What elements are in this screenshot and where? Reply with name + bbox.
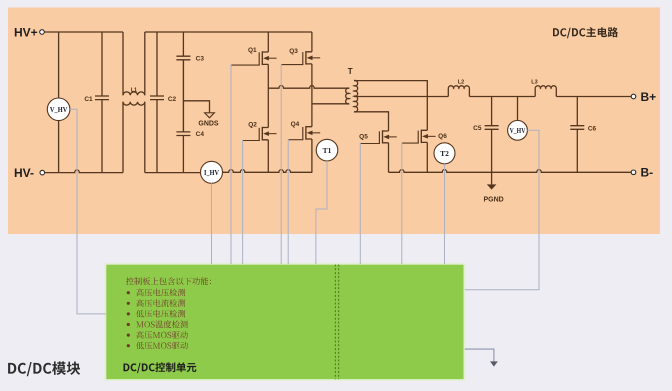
wire bridge node B to primary bottom: [312, 103, 349, 105]
transistor Q4: [303, 126, 320, 140]
ground GNDS symbol: [205, 113, 215, 118]
control wire Q3 gate drive: [280, 64, 282, 264]
capacitor C4 top lead: [182, 131, 184, 133]
svg-text:Q3: Q3: [289, 48, 298, 55]
wire Q2 gate lead: [243, 140, 260, 142]
inductor L1 bottom-left stub: [122, 102, 124, 173]
svg-text:PGND: PGND: [483, 196, 503, 203]
wire PGND drop: [491, 172, 493, 184]
capacitor C3 top lead: [182, 32, 184, 56]
control wire Q2 gate drive: [242, 140, 244, 264]
transistor Q5: [379, 130, 396, 143]
title DC/DC main circuit: [553, 27, 618, 38]
capacitor C4 plates: [176, 132, 190, 136]
svg-text:HV-: HV-: [14, 166, 34, 180]
svg-text:V_HV: V_HV: [50, 105, 68, 114]
control box ground wire: [465, 349, 494, 361]
capacitor C5 plates: [485, 126, 499, 130]
svg-text:Q6: Q6: [438, 133, 447, 140]
wire V_HV output sense stub: [517, 97, 519, 121]
list item 高压电压检测: [136, 289, 185, 297]
bullet 6: [127, 344, 130, 347]
svg-text:Q1: Q1: [248, 47, 257, 54]
wire Q5 source to B- rail: [388, 143, 390, 173]
transistor Q2: [259, 127, 276, 141]
wire V_HV branch lower: [58, 121, 60, 173]
svg-text:C6: C6: [588, 125, 597, 132]
capacitor C2 top lead: [156, 32, 158, 96]
svg-text:L1: L1: [131, 87, 137, 93]
control wire from V_HV input to control box: [70, 109, 106, 314]
label DC/DC control unit: [124, 362, 197, 373]
svg-text:GNDS: GNDS: [198, 121, 219, 128]
transistor Q3: [303, 51, 320, 65]
svg-text:B+: B+: [641, 90, 657, 104]
capacitor C1 plates: [95, 96, 109, 100]
control wire from V_HV output to control box: [465, 130, 539, 289]
bullet 3: [127, 312, 130, 315]
inductor L3: [535, 86, 556, 97]
svg-text:L3: L3: [531, 79, 537, 85]
svg-text:Q4: Q4: [291, 121, 300, 128]
capacitor C3 plates: [176, 56, 190, 60]
capacitor C6 bottom lead: [576, 129, 578, 172]
svg-text:L2: L2: [458, 79, 464, 85]
control wire Q1 gate drive: [230, 64, 232, 264]
svg-text:T2: T2: [440, 149, 449, 158]
capacitor C3-C4 mid segment: [182, 60, 184, 132]
wire right leg Q4 source to HV- rail: [311, 139, 313, 172]
control wire from T1 to control box: [316, 161, 327, 264]
bullet 1: [127, 291, 130, 294]
capacitor C5 bottom lead: [491, 129, 493, 172]
svg-text:C3: C3: [196, 55, 205, 62]
svg-text:Q2: Q2: [248, 121, 257, 128]
svg-text:C2: C2: [168, 96, 177, 103]
sensor T1: [316, 139, 338, 161]
wire Q6 source to B- rail: [426, 142, 428, 172]
svg-text:V_HV: V_HV: [510, 126, 526, 135]
label DC/DC module: [8, 361, 80, 376]
wire HV- rail to I_HV: [145, 172, 201, 174]
capacitor C2 plates: [150, 96, 164, 100]
control ground arrow: [490, 361, 498, 366]
terminal HV+: [40, 30, 45, 35]
control wire from I_HV to control box: [211, 183, 213, 264]
wire secondary centre tap to L2: [354, 96, 448, 98]
meter I_HV: [201, 161, 223, 183]
terminal HV-: [40, 170, 45, 175]
terminal B+: [631, 94, 636, 99]
wire secondary bottom pin to Q5 drain: [354, 112, 389, 131]
wire Q6 gate lead: [402, 142, 419, 144]
wire right leg Q3 source to Q4 drain: [311, 64, 313, 127]
capacitor C2 bottom lead: [156, 100, 158, 173]
transistor Q1: [259, 51, 276, 65]
transistor Q6: [418, 130, 435, 144]
list item 高压电流检测: [136, 299, 185, 307]
meter V_HV input: [47, 98, 70, 121]
list item 高压MOS驱动: [136, 331, 188, 339]
transformer T secondary winding: [354, 80, 358, 112]
dashed separator line left: [334, 265, 336, 380]
control wire Q5 gate drive: [359, 143, 361, 264]
svg-text:C4: C4: [196, 131, 205, 138]
wire left leg Q2 source to HV- rail: [267, 140, 269, 173]
control unit box (green): [105, 264, 464, 380]
wire secondary top pin to Q6 drain: [354, 81, 427, 131]
control wire Q4 gate drive: [287, 139, 289, 264]
svg-text:T1: T1: [323, 146, 332, 155]
svg-text:T: T: [348, 67, 353, 76]
svg-text:Q5: Q5: [359, 134, 368, 141]
capacitor C6 top lead: [576, 97, 578, 126]
control box heading: [126, 277, 211, 285]
inductor L1 top-right stub: [144, 32, 146, 95]
meter V_HV output: [508, 120, 528, 140]
wire Q1 gate lead: [231, 64, 260, 66]
bullet 5: [127, 334, 130, 337]
wire L3 to B+: [556, 96, 631, 98]
svg-text:C5: C5: [473, 125, 482, 132]
inductor L2: [448, 86, 469, 97]
list item 低压MOS驱动: [136, 342, 188, 350]
wire HV+ rail left segment: [44, 31, 123, 33]
dashed separator line right: [338, 265, 340, 380]
capacitor C1 top lead: [101, 32, 103, 96]
control wire Q6 gate drive: [401, 142, 403, 264]
wire right leg Q3 drain: [311, 32, 313, 52]
capacitor C5 top lead: [491, 97, 493, 126]
capacitor C6 plates: [570, 126, 584, 130]
wire left leg Q1 source to Q2 drain: [267, 64, 269, 127]
wire Q4 gate lead: [288, 139, 303, 141]
wire Q5 gate lead: [360, 143, 380, 145]
wire L2 to L3: [469, 96, 535, 98]
list item MOS温度检测: [136, 320, 188, 328]
wire HV- rail right of I_HV with hops over gate wires: [223, 170, 313, 173]
inductor L1 top-left stub: [122, 32, 124, 95]
inductor L1 top winding: [123, 92, 145, 95]
wire V_HV branch upper: [58, 32, 60, 98]
sensor T2: [434, 143, 455, 164]
svg-text:B-: B-: [641, 166, 654, 180]
inductor L1 bottom winding: [123, 102, 145, 105]
svg-text:I_HV: I_HV: [204, 168, 219, 177]
wire HV- rail left segment with hop over V_HV sense wire: [45, 170, 123, 173]
svg-text:HV+: HV+: [14, 25, 38, 39]
wire B- rail with hops over control wires: [389, 170, 632, 173]
ground PGND symbol: [487, 184, 497, 189]
wire Q3 gate lead: [281, 64, 303, 66]
control wire from T2 to control box: [444, 164, 446, 264]
terminal B-: [631, 170, 636, 175]
capacitor C1 bottom lead: [101, 100, 103, 173]
wire left leg Q1 drain: [267, 32, 269, 52]
transformer T primary winding: [346, 88, 350, 104]
capacitor C4 bottom lead: [182, 136, 184, 173]
bullet 4: [127, 323, 130, 326]
capacitor C3 bottom lead: [182, 59, 184, 61]
wire to GNDS: [183, 101, 209, 113]
wire HV+ rail mid segment: [145, 31, 312, 33]
inductor L1 bottom-right stub: [144, 102, 146, 173]
wire bridge node A to primary top with hops: [268, 85, 349, 88]
main circuit panel (orange): [8, 8, 660, 235]
bullet 2: [127, 302, 130, 305]
list item 低压电压检测: [136, 310, 185, 318]
svg-text:C1: C1: [84, 96, 93, 103]
